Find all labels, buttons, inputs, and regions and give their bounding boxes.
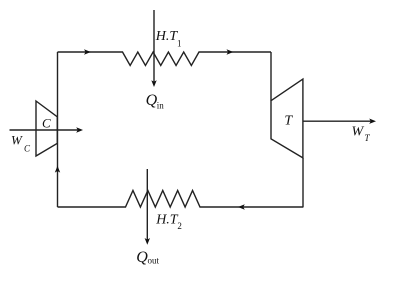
svg-text:W: W	[11, 133, 23, 148]
svg-text:Q: Q	[136, 249, 148, 266]
svg-text:in: in	[157, 100, 165, 110]
svg-text:H.T: H.T	[155, 29, 179, 44]
svg-text:2: 2	[177, 221, 182, 231]
svg-text:W: W	[352, 124, 365, 139]
svg-text:T: T	[284, 114, 293, 129]
svg-text:C: C	[24, 144, 31, 154]
svg-text:out: out	[148, 255, 160, 265]
svg-text:1: 1	[177, 38, 182, 48]
svg-text:Q: Q	[146, 92, 158, 109]
svg-text:T: T	[365, 133, 371, 143]
svg-text:H.T: H.T	[155, 212, 179, 227]
svg-text:C: C	[42, 116, 51, 131]
